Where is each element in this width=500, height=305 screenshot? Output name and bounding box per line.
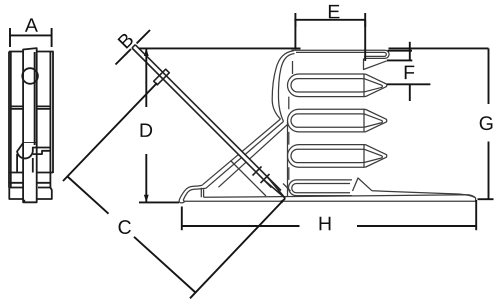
spine outer wall — [272, 51, 294, 119]
prong 5 fin tip — [353, 178, 373, 191]
label B — [117, 32, 134, 49]
plate bottom edge — [185, 198, 476, 201]
step to plate — [201, 188, 203, 198]
label G — [480, 116, 493, 130]
C bottom extension line (from rod tip) — [190, 199, 285, 299]
D bottom reference line — [139, 201, 179, 203]
pivot circle — [22, 68, 38, 84]
rod tip cone — [253, 167, 286, 199]
D dimension line — [145, 48, 147, 202]
label A — [25, 18, 38, 31]
spine right wall segments between prongs — [289, 61, 293, 180]
rod upper edge — [135, 45, 281, 191]
gusset inner rib — [219, 125, 288, 188]
F bottom reference line — [387, 83, 430, 85]
label F — [405, 66, 415, 79]
front view center strip (folded spike) — [23, 48, 37, 202]
H extension lines — [182, 200, 476, 230]
prong 4 — [288, 145, 387, 168]
rod body white fill — [132, 45, 285, 198]
gusset outer hypotenuse — [203, 119, 281, 185]
C arrowhead at rod tip — [280, 198, 285, 203]
label H — [320, 217, 331, 230]
label C — [119, 220, 131, 234]
plate left shelf and curl — [179, 185, 206, 203]
E extension lines — [295, 20, 365, 61]
spine inner wall — [278, 54, 294, 122]
gusset hypotenuse inner pair line — [206, 122, 284, 189]
label D — [141, 123, 153, 136]
B dimension line (perpendicular to rod) — [116, 30, 151, 65]
prong 5 (bottom, merged with plate) — [289, 180, 352, 196]
C dimension line — [68, 177, 196, 293]
cap barb — [364, 58, 387, 69]
F dimension line — [387, 42, 413, 101]
prong 2 — [288, 74, 387, 97]
clip on rod — [154, 69, 170, 85]
top cap outer — [292, 50, 390, 58]
gusset inner vertical — [287, 122, 289, 196]
prong 3 — [288, 109, 387, 132]
front view outer body — [9, 52, 53, 188]
rod top end cap — [132, 45, 135, 48]
D arrowheads — [144, 48, 149, 56]
plate top edge — [204, 195, 476, 198]
front view foot — [9, 188, 52, 200]
C top extension line (from clip) — [63, 83, 157, 181]
top cap inner — [296, 52, 386, 56]
dimension A line — [9, 28, 52, 47]
G dimension line — [478, 48, 494, 199]
label E — [329, 5, 340, 18]
channel wall right — [283, 184, 291, 192]
top reference line from rod to G — [139, 47, 489, 49]
channel wall left — [231, 161, 267, 197]
plate ramp from fin to tip — [372, 191, 476, 198]
E dimension line — [294, 13, 365, 27]
H dimension line — [182, 225, 477, 227]
hook / arch detail — [17, 143, 50, 173]
rod lower edge — [132, 48, 272, 188]
